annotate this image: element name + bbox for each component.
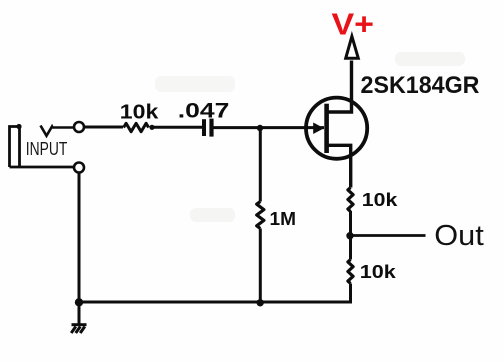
node: output junction dot bbox=[346, 232, 353, 239]
svg-text:10k: 10k bbox=[120, 101, 159, 124]
resistor 10k series input bbox=[124, 123, 149, 131]
wire: stub to ground symbol bbox=[78, 302, 81, 324]
svg-text:10k: 10k bbox=[362, 190, 399, 210]
resistor 10k upper (drain divider) bbox=[348, 188, 353, 212]
capacitor .047 right plate bbox=[209, 119, 213, 137]
input jack tip dot bbox=[16, 124, 21, 129]
transistor 2SK184GR JFET circle bbox=[306, 98, 367, 159]
svg-text:V+: V+ bbox=[332, 6, 375, 41]
capacitor .047 left plate bbox=[202, 119, 206, 136]
wire: 1M to ground rail bbox=[259, 229, 262, 303]
resistor 10k lower (source divider) bbox=[348, 260, 353, 284]
scan artifact smudge bbox=[155, 76, 235, 92]
ground symbol bbox=[71, 325, 86, 333]
svg-text:.047: .047 bbox=[178, 98, 230, 122]
wire: R1 to capacitor bbox=[151, 126, 202, 129]
wire: capacitor to gate node bbox=[213, 126, 324, 129]
input jack body bbox=[10, 127, 75, 168]
wire: out node to Out label bbox=[353, 234, 426, 237]
svg-text:Out: Out bbox=[434, 220, 484, 252]
svg-text:INPUT: INPUT bbox=[26, 139, 68, 159]
input jack spring contact (V) bbox=[41, 126, 75, 136]
wire: gate node down to 1M bbox=[259, 128, 262, 202]
V+ supply arrow bbox=[346, 36, 359, 58]
wire: jack sleeve down to ground rail bbox=[78, 173, 81, 303]
svg-text:2SK184GR: 2SK184GR bbox=[361, 72, 480, 99]
junction blob after resistor bbox=[149, 125, 154, 130]
input jack tip terminal circle bbox=[74, 122, 84, 132]
wire: jack tip to R1 bbox=[85, 126, 124, 129]
wire: upper 10k to out node bbox=[349, 211, 352, 236]
node: ground junction dot left bbox=[75, 298, 83, 306]
resistor 1M bbox=[257, 202, 264, 229]
transistor drain lead bbox=[328, 61, 352, 113]
wire: bottom ground rail bbox=[79, 301, 352, 304]
svg-text:10k: 10k bbox=[360, 261, 397, 282]
node: gate junction dot bbox=[257, 125, 263, 131]
wire: out node to lower 10k bbox=[349, 236, 352, 260]
scan artifact smudge bbox=[395, 52, 465, 66]
transistor source lead bbox=[328, 145, 351, 187]
svg-text:1M: 1M bbox=[270, 208, 297, 229]
input jack sleeve terminal circle bbox=[74, 163, 84, 173]
transistor gate arrowhead bbox=[313, 123, 324, 135]
node: ground junction dot middle bbox=[257, 299, 264, 306]
wire: lower 10k down to ground rail corner bbox=[349, 284, 352, 303]
transistor channel bar bbox=[324, 104, 329, 153]
scan artifact smudge bbox=[190, 208, 235, 222]
